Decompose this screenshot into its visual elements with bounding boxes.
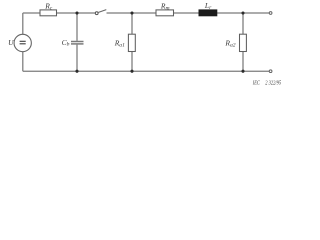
node dot top Ra1 [130, 11, 133, 14]
wire Rc to switch [57, 12, 96, 14]
wire Ra2 branch lower [242, 52, 244, 72]
svg-text:IEC: IEC [252, 80, 260, 87]
svg-text:Cb: Cb [62, 38, 70, 48]
wire inductor to top output terminal [217, 12, 269, 14]
wire Cb branch upper [76, 13, 78, 41]
resistor Rc [40, 10, 57, 16]
wire top-left from corner to Rc [23, 12, 40, 14]
wire switch to Rm [107, 12, 157, 14]
node dot top Ra2 [241, 11, 244, 14]
output terminal bottom [269, 70, 272, 73]
node dot bottom Ra2 [241, 70, 244, 73]
wire bottom rail [23, 70, 269, 72]
svg-text:Ra2: Ra2 [224, 39, 235, 49]
svg-text:Rc: Rc [44, 1, 53, 11]
voltage source U circle [14, 34, 31, 51]
svg-text:U: U [8, 38, 14, 47]
node dot top Cb [75, 11, 78, 14]
resistor Rm [156, 10, 174, 16]
switch pivot circle [95, 12, 98, 15]
resistor Ra2 [240, 34, 247, 51]
wire left rail upper [22, 13, 24, 34]
wire Cb branch lower [76, 45, 78, 72]
wire Rm to inductor [174, 12, 200, 14]
wire Ra2 branch upper [242, 13, 244, 34]
svg-text:2 322/95: 2 322/95 [265, 80, 281, 87]
node dot bottom Ra1 [130, 70, 133, 73]
svg-text:Rm: Rm [160, 1, 170, 11]
svg-text:Lr: Lr [204, 1, 212, 11]
capacitor Cb plates [71, 42, 84, 44]
output terminal top [269, 12, 272, 15]
wire Ra1 branch upper [131, 13, 133, 34]
svg-text:Ra1: Ra1 [114, 38, 125, 48]
switch blade [98, 10, 106, 13]
voltage source DC symbol bars [20, 41, 26, 44]
node dot bottom Cb [75, 70, 78, 73]
resistor Ra1 [128, 34, 135, 51]
wire Ra1 branch lower [131, 52, 133, 72]
wire left rail lower [22, 52, 24, 72]
inductor Lr (filled IEC box) [199, 10, 217, 16]
